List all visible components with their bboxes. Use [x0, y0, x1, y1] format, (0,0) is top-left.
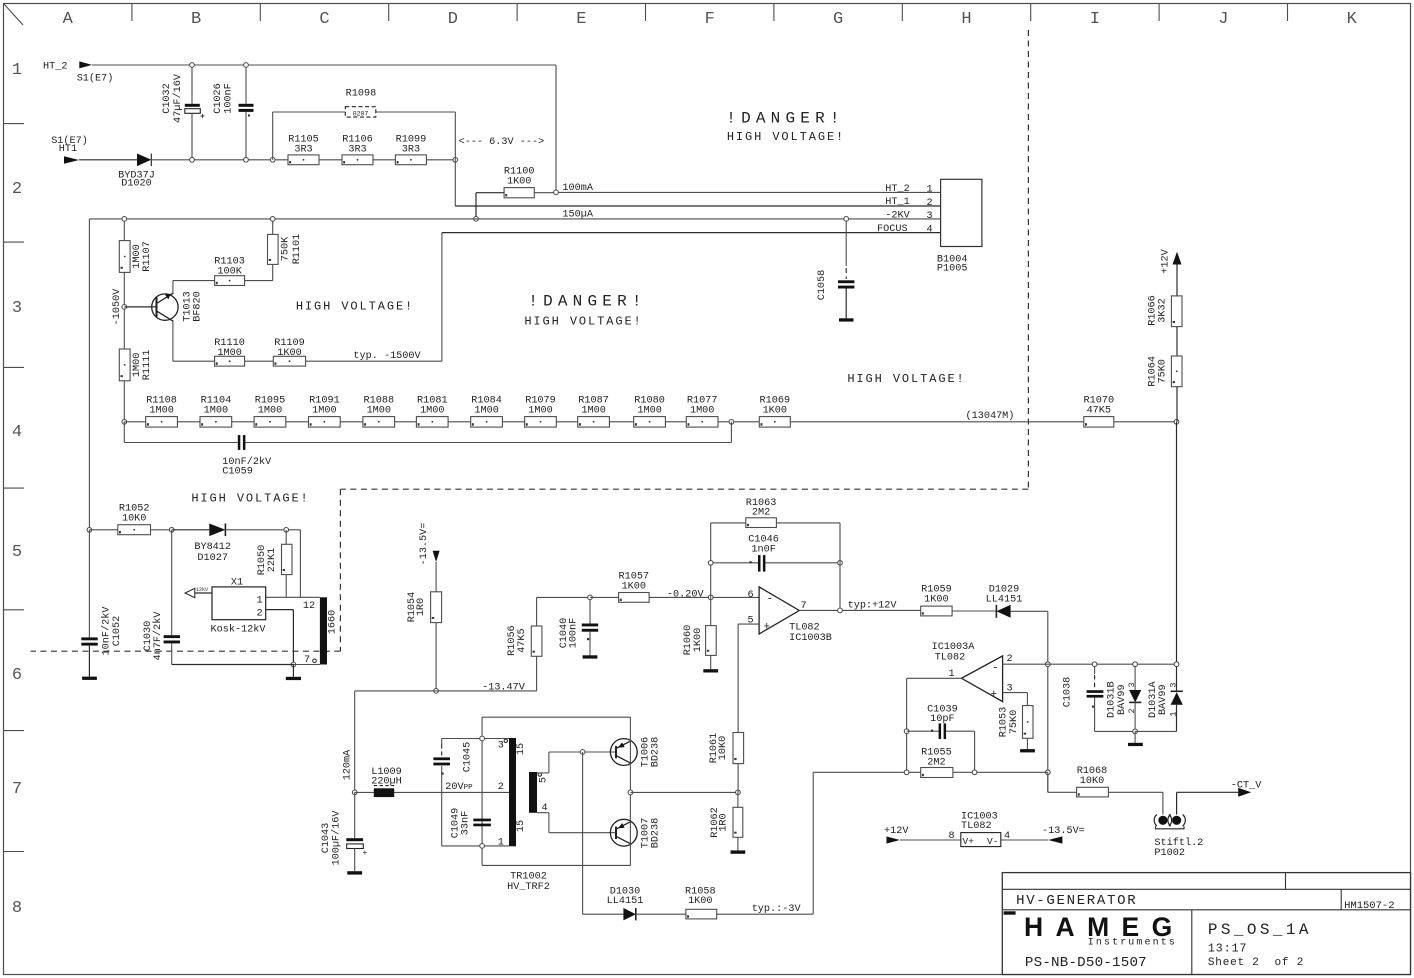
svg-text:R1053: R1053 — [998, 707, 1009, 738]
capacitor C1032 — [162, 65, 205, 160]
svg-text:BY8412: BY8412 — [194, 542, 231, 553]
node junction R1054 bottom — [434, 689, 439, 694]
svg-text:FOCUS: FOCUS — [877, 224, 908, 235]
wire — [123, 272, 125, 349]
input arrow HT1 — [64, 156, 79, 164]
svg-text:1M00: 1M00 — [149, 405, 173, 416]
svg-text:1M00: 1M00 — [637, 405, 661, 416]
wire op-amp A output — [907, 678, 962, 772]
transistor T1007 BD238 — [610, 818, 661, 849]
svg-text:12: 12 — [303, 601, 315, 612]
svg-text:E: E — [576, 10, 586, 29]
svg-text:+12V: +12V — [884, 826, 909, 837]
svg-text:75K0: 75K0 — [1158, 359, 1169, 383]
svg-text:1M00: 1M00 — [420, 405, 444, 416]
resistor R1107 1M00 — [119, 241, 153, 273]
svg-text:D1027: D1027 — [197, 553, 228, 564]
node junction pin1 — [480, 844, 485, 849]
node junction C1058 top — [844, 217, 849, 222]
resistor R1070 47K5 — [1084, 395, 1115, 427]
node junction R1100 tap — [474, 217, 479, 222]
svg-text:1K00: 1K00 — [763, 405, 787, 416]
svg-text:R1111: R1111 — [142, 350, 153, 381]
resistor R1052 10K0 — [89, 503, 171, 534]
wire — [123, 381, 125, 422]
svg-text:12kV: 12kV — [196, 587, 208, 593]
svg-text:D1031B: D1031B — [1107, 681, 1118, 718]
ground D1031B — [1128, 731, 1143, 746]
connector Stiftl.2 P1002 — [1154, 815, 1203, 859]
svg-text:C1058: C1058 — [817, 270, 828, 301]
wire pin1 line — [442, 845, 509, 847]
svg-text:1K00: 1K00 — [688, 896, 712, 907]
svg-text:750K: 750K — [281, 236, 292, 261]
node junction C1046 right — [838, 560, 843, 565]
svg-text:C: C — [319, 10, 329, 29]
node junction pin2 right rail — [1174, 662, 1179, 667]
svg-text:C1032: C1032 — [162, 83, 173, 114]
svg-text:-2KV: -2KV — [885, 210, 910, 221]
svg-text:4n7F/2kV: 4n7F/2kV — [152, 611, 164, 661]
svg-text:LL4151: LL4151 — [986, 594, 1023, 605]
svg-text:<--- 6.3V --->: <--- 6.3V ---> — [459, 137, 545, 148]
wire 100mA line — [556, 191, 941, 193]
resistor R1066 3K32 — [1147, 295, 1182, 326]
svg-text:2: 2 — [256, 609, 262, 620]
svg-text:2M2: 2M2 — [927, 757, 945, 768]
resistor R1111 1M00 — [119, 349, 153, 381]
resistor R1069 1K00 — [759, 395, 790, 427]
svg-text:1M00: 1M00 — [581, 405, 605, 416]
resistor R1095 1M00 — [254, 395, 286, 427]
svg-text:1M00: 1M00 — [367, 405, 391, 416]
resistor R1080 1M00 — [634, 395, 666, 427]
wire transformer bottom — [482, 864, 630, 866]
svg-text:2: 2 — [1006, 654, 1012, 665]
inductor L1009 220uH — [371, 767, 402, 797]
svg-text:3: 3 — [927, 211, 933, 222]
resistor R1088 1M00 — [363, 395, 395, 427]
svg-text:100mA: 100mA — [562, 183, 593, 194]
svg-text:C1059: C1059 — [222, 467, 253, 478]
wire op-amp B output — [799, 609, 920, 611]
node junction inv input — [708, 595, 713, 600]
svg-text:2: 2 — [498, 782, 504, 793]
svg-text:BD238: BD238 — [651, 737, 662, 768]
wire divider rail top — [123, 219, 125, 241]
resistor R1053 75K0 — [998, 706, 1035, 753]
node junction R1061 bottom — [736, 790, 741, 795]
node junction chain right — [729, 419, 734, 424]
node junction heater right — [453, 157, 458, 162]
svg-text:1K00: 1K00 — [622, 581, 646, 592]
ground X1 — [286, 665, 301, 681]
svg-text:J: J — [1218, 10, 1228, 29]
resistor R1109 1K00 — [273, 338, 305, 366]
svg-text:47K5: 47K5 — [517, 628, 528, 652]
svg-text:1n0F: 1n0F — [751, 544, 775, 555]
capacitor C1030 4n7F/2kV — [143, 530, 180, 665]
transformer TR1002 secondary bar — [529, 772, 550, 814]
svg-text:TL082: TL082 — [789, 623, 820, 634]
resistor R1058 1K00 — [685, 886, 813, 919]
svg-text:4: 4 — [12, 423, 22, 442]
resistor R1087 1M00 — [578, 395, 610, 427]
svg-text:5: 5 — [12, 543, 22, 562]
node junction output — [628, 790, 633, 795]
wire HT_2 top — [92, 64, 556, 66]
resistor R1068 10K0 — [1077, 766, 1163, 797]
diode D1030 LL4151 — [607, 886, 686, 920]
svg-text:typ.:-3V: typ.:-3V — [752, 904, 802, 915]
svg-text:5: 5 — [539, 777, 550, 783]
wire — [245, 360, 274, 362]
svg-text:220µH: 220µH — [371, 776, 402, 787]
svg-text:4: 4 — [927, 224, 933, 235]
svg-text:HV-GENERATOR: HV-GENERATOR — [1016, 893, 1137, 909]
node junction C1032 bottom — [190, 157, 195, 162]
svg-text:S1(E7): S1(E7) — [77, 73, 114, 85]
wire — [426, 159, 455, 161]
svg-text:T1006: T1006 — [640, 737, 651, 768]
svg-text:-: - — [992, 663, 999, 675]
wire secondary pin5 — [537, 752, 616, 773]
svg-text:X1: X1 — [231, 577, 243, 588]
svg-text:8: 8 — [12, 899, 22, 918]
svg-text:B: B — [191, 10, 201, 29]
node junction C1026 top — [244, 63, 249, 68]
svg-text:F: F — [705, 10, 715, 29]
wire R1068 feed — [1048, 772, 1077, 792]
node junction base tap — [122, 305, 127, 310]
resistor R1100 1K00 — [476, 167, 556, 219]
wire pin12 route — [266, 530, 320, 598]
wire pin2 line — [1003, 663, 1177, 665]
svg-text:HIGH VOLTAGE!: HIGH VOLTAGE! — [191, 492, 309, 506]
svg-text:PS_OS_1A: PS_OS_1A — [1208, 921, 1312, 939]
wire R1103 to R1101 — [245, 264, 273, 280]
wire bottom run — [172, 664, 320, 666]
warning text danger middle — [524, 293, 646, 329]
node junction D1031B top — [1133, 662, 1138, 667]
svg-text:HIGH VOLTAGE!: HIGH VOLTAGE! — [296, 300, 414, 314]
HV shield boundary dashed line — [31, 30, 1029, 651]
supply +12V arrow — [1161, 248, 1182, 296]
node junction output feedback — [838, 608, 843, 613]
svg-text:1M00: 1M00 — [312, 405, 336, 416]
svg-text:100nF: 100nF — [569, 618, 580, 649]
capacitor C1026 — [213, 65, 253, 160]
svg-text:10K0: 10K0 — [1080, 776, 1104, 787]
svg-text:0207: 0207 — [353, 110, 369, 117]
node junction feedback tap — [580, 750, 585, 755]
svg-text:I: I — [1090, 10, 1100, 29]
svg-text:R1101: R1101 — [292, 234, 303, 265]
svg-text:HM1507-2: HM1507-2 — [1344, 900, 1394, 912]
capacitor C1043 100uF/16V — [321, 792, 367, 874]
wire transformer top — [482, 716, 630, 718]
svg-text:1M00: 1M00 — [474, 405, 498, 416]
wire right rail down — [1176, 387, 1179, 665]
node junction chain left — [122, 419, 127, 424]
svg-text:HIGH VOLTAGE!: HIGH VOLTAGE! — [727, 130, 845, 144]
svg-text:G: G — [833, 10, 843, 29]
svg-text:typ:+12V: typ:+12V — [848, 601, 898, 612]
diode D1029 LL4151 — [986, 584, 1048, 618]
transistor T1006 BD238 — [610, 737, 661, 768]
resistor R1081 1M00 — [416, 395, 448, 427]
node junction C1026 bottom — [244, 157, 249, 162]
svg-text:-1050V: -1050V — [112, 288, 123, 326]
svg-text:15: 15 — [516, 743, 527, 755]
svg-text:HIGH VOLTAGE!: HIGH VOLTAGE! — [524, 315, 642, 329]
svg-text:IC1003B: IC1003B — [789, 633, 832, 644]
svg-text:1M00: 1M00 — [258, 405, 282, 416]
node junction C1032 top — [190, 63, 195, 68]
svg-text:1: 1 — [12, 61, 22, 80]
node junction R1055 right — [972, 770, 977, 775]
wire chain return loop — [124, 422, 731, 443]
svg-text:+: + — [764, 622, 771, 634]
svg-text:-: - — [767, 594, 774, 606]
wire collector rail — [629, 717, 631, 865]
svg-text:3: 3 — [12, 299, 22, 318]
node junction C1039 left — [904, 729, 909, 734]
svg-text:3: 3 — [1127, 682, 1137, 687]
resistor R1061 10K0 — [709, 733, 744, 793]
pin 7 label — [304, 655, 316, 666]
svg-text:typ. -1500V: typ. -1500V — [353, 351, 421, 362]
resistor R1056 47K5 — [507, 597, 590, 691]
net label HT_2 — [43, 62, 113, 85]
wire -1500V to FOCUS — [306, 233, 442, 362]
supply -13.5V= arrow — [419, 523, 440, 592]
input arrow HT_2 — [79, 61, 92, 68]
resistor R1057 1K00 — [590, 571, 759, 602]
svg-text:10K0: 10K0 — [718, 736, 729, 760]
svg-text:3R3: 3R3 — [402, 145, 420, 156]
diode D1020 BYD37J — [118, 154, 155, 190]
svg-text:10pF: 10pF — [930, 714, 954, 725]
svg-text:3: 3 — [1168, 682, 1178, 687]
capacitor C1046 1n0F — [711, 535, 840, 572]
wire heater line — [151, 159, 288, 161]
wire Stift pin1 drop — [1162, 792, 1164, 814]
wire primary feed — [355, 791, 509, 793]
wire R1101 top — [272, 219, 274, 235]
resistor R1050 22K1 — [257, 530, 292, 598]
capacitor C1049 33nF — [451, 808, 491, 839]
net label HT1 — [51, 135, 88, 155]
svg-text:IC1003A: IC1003A — [932, 642, 976, 653]
svg-text:C1045: C1045 — [463, 742, 474, 773]
resistor R1103 100K — [214, 256, 245, 285]
svg-text:6: 6 — [747, 590, 753, 601]
svg-text:13:17: 13:17 — [1208, 942, 1248, 955]
resistor R1098 bypass wire — [273, 112, 456, 206]
svg-text:BF820: BF820 — [192, 291, 203, 322]
wire snubber right vertical with C1049 — [481, 717, 483, 865]
svg-text:!DANGER!: !DANGER! — [726, 110, 844, 128]
power symbol IC1003 — [884, 811, 1085, 847]
wire pin3 stub — [1003, 693, 1028, 706]
wire to R1070 — [790, 421, 1084, 423]
wire left rail to R1052 — [88, 219, 90, 530]
svg-text:T1007: T1007 — [640, 818, 651, 849]
svg-text:100µF/16V: 100µF/16V — [330, 810, 342, 866]
wire 150uA line — [89, 218, 940, 220]
node junction L1009 left — [352, 790, 357, 795]
svg-text:HT_2: HT_2 — [43, 62, 67, 73]
svg-text:3R3: 3R3 — [294, 145, 312, 156]
resistor R1055 2M2 — [921, 747, 953, 777]
node junction R1055 left — [904, 770, 909, 775]
wire snubber left vertical with C1045 — [441, 739, 443, 846]
capacitor C1040 100nF — [559, 597, 598, 658]
svg-text:1: 1 — [1168, 711, 1178, 716]
svg-text:3: 3 — [498, 741, 504, 752]
node junction D1031B bottom — [1133, 729, 1138, 734]
svg-text:20VPP: 20VPP — [445, 782, 473, 793]
svg-text:2: 2 — [12, 180, 22, 199]
svg-text:1R0: 1R0 — [719, 813, 730, 831]
svg-text:1: 1 — [927, 185, 933, 196]
warning text danger top — [726, 110, 845, 145]
wire HT1 — [79, 159, 137, 161]
resistor R1064 75K0 — [1147, 356, 1182, 387]
wire -13.47V line — [355, 690, 537, 692]
wire feedback to D1030 — [583, 752, 624, 914]
svg-text:7: 7 — [304, 655, 310, 666]
node junction X1 pin2 bottom — [291, 662, 296, 667]
wire output to R1061 R1062 — [630, 791, 738, 793]
capacitor C1052 10nF/2kV — [81, 530, 123, 680]
svg-text:Instruments: Instruments — [1088, 938, 1177, 949]
svg-text:HT1: HT1 — [59, 144, 77, 155]
node junction C1040 top — [588, 595, 593, 600]
resistor R1091 1M00 — [309, 395, 341, 427]
svg-text:2: 2 — [1127, 708, 1137, 713]
transformer TR1002 primary bar — [498, 738, 550, 893]
node junction C1046 left — [708, 560, 713, 565]
svg-text:R1107: R1107 — [142, 241, 153, 272]
svg-text:D1020: D1020 — [121, 179, 152, 190]
op-amp IC1003A TL082 — [932, 642, 1013, 702]
wire pin3 line — [442, 738, 509, 740]
svg-text:1: 1 — [256, 595, 262, 606]
svg-text:D: D — [448, 10, 458, 29]
svg-text:75K0: 75K0 — [1009, 710, 1020, 734]
resistor R1106 3R3 — [342, 135, 373, 165]
svg-text:1K00: 1K00 — [507, 177, 531, 188]
svg-text:100K: 100K — [217, 267, 242, 278]
svg-text:150µA: 150µA — [562, 210, 593, 221]
svg-text:TL082: TL082 — [935, 653, 966, 664]
node junction right rail — [1174, 419, 1179, 424]
resistor R1108 1M00 — [146, 395, 178, 427]
resistor R1105 3R3 — [288, 135, 319, 165]
node junction R1101 top — [270, 217, 275, 222]
resistor R1063 2M2 — [711, 498, 840, 528]
svg-text:HIGH VOLTAGE!: HIGH VOLTAGE! — [847, 372, 965, 386]
capacitor C1038 — [1063, 664, 1136, 731]
svg-text:Sheet 2 of 2: Sheet 2 of 2 — [1208, 957, 1304, 969]
capacitor C1058 — [817, 219, 854, 322]
svg-text:33nF: 33nF — [461, 811, 472, 835]
svg-text:6: 6 — [12, 666, 22, 685]
svg-text:C1052: C1052 — [112, 616, 123, 647]
svg-text:2: 2 — [927, 198, 933, 209]
svg-text:Kosk-12kV: Kosk-12kV — [210, 623, 266, 635]
svg-text:P1005: P1005 — [937, 264, 968, 275]
capacitor C1045 — [433, 742, 473, 775]
svg-text:10K0: 10K0 — [122, 513, 146, 524]
resistor R1079 1M00 — [525, 395, 557, 427]
svg-text:R1098: R1098 — [346, 89, 377, 100]
svg-text:47K5: 47K5 — [1087, 405, 1111, 416]
output arrow 12kV — [185, 587, 212, 598]
wire chain line — [124, 421, 759, 423]
svg-text:-CT_V: -CT_V — [1231, 780, 1262, 791]
node junction C1030 top — [169, 527, 174, 532]
resistor R1110 1M00 — [214, 338, 245, 366]
svg-text:A: A — [63, 10, 74, 29]
node junction R1050 top — [284, 527, 289, 532]
wire secondary pin4 — [537, 813, 616, 833]
svg-text:TL082: TL082 — [961, 821, 992, 832]
wire HT_2 drop — [555, 65, 557, 192]
svg-text:!DANGER!: !DANGER! — [528, 293, 646, 311]
node junction divider top — [122, 217, 127, 222]
svg-text:120mA: 120mA — [342, 749, 353, 780]
svg-text:V+: V+ — [963, 836, 975, 847]
resistor R1062 1R0 — [710, 792, 745, 853]
node junction C1038 top — [1092, 662, 1097, 667]
svg-text:-13.47V: -13.47V — [482, 682, 526, 693]
node junction pin3 — [480, 736, 485, 741]
svg-text:15: 15 — [516, 820, 527, 832]
svg-text:7: 7 — [12, 780, 22, 799]
op-amp IC1003B TL082 — [747, 587, 831, 644]
node junction R1055 line — [1045, 770, 1050, 775]
resistor R1077 1M00 — [686, 395, 718, 427]
svg-text:8: 8 — [948, 831, 954, 842]
wire — [1176, 327, 1178, 356]
wire -CT_V — [1177, 792, 1239, 814]
wire pin5 stub — [738, 623, 759, 625]
capacitor C1059 10nF/2kV — [222, 435, 272, 478]
svg-text:1K00: 1K00 — [924, 594, 948, 605]
wire pin5 vertical — [737, 624, 739, 732]
diode D1031B BAV99 — [1107, 664, 1142, 731]
svg-text:(13047M): (13047M) — [966, 410, 1015, 422]
wire — [319, 159, 342, 161]
svg-text:+12V: +12V — [1161, 248, 1172, 273]
svg-text:1M00: 1M00 — [528, 405, 552, 416]
block X1 Kosk-12kV — [210, 577, 266, 635]
wire emitter up — [173, 281, 215, 294]
node junction R1100 right — [554, 190, 559, 195]
svg-text:BD238: BD238 — [651, 818, 662, 849]
wire feedback left vertical — [710, 523, 712, 598]
wire FOCUS line — [442, 232, 941, 234]
resistor R1101 750K — [268, 234, 304, 265]
svg-text:LL4151: LL4151 — [607, 896, 644, 907]
wire feedback right vertical — [839, 523, 841, 611]
wire X1 pin2 — [266, 610, 294, 665]
svg-text:100nF: 100nF — [223, 83, 234, 114]
svg-text:1M00: 1M00 — [690, 405, 714, 416]
